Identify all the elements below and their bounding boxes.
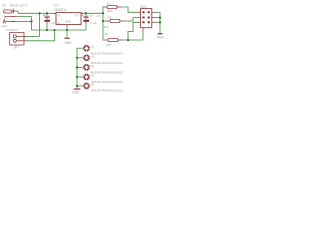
svg-text:R1: R1 <box>107 1 111 5</box>
svg-text:MOUNT-PAD-ROUND3.2: MOUNT-PAD-ROUND3.2 <box>91 51 124 55</box>
svg-text:SV1: SV1 <box>140 5 146 9</box>
svg-text:330: 330 <box>107 9 112 13</box>
svg-text:GND: GND <box>72 91 80 95</box>
svg-text:GND: GND <box>157 36 165 40</box>
svg-text:9V-BATT: 9V-BATT <box>6 28 18 32</box>
svg-text:GND: GND <box>65 41 73 45</box>
svg-text:100uF: 100uF <box>52 21 61 25</box>
svg-text:330: 330 <box>106 43 111 47</box>
svg-text:X1: X1 <box>2 4 6 8</box>
svg-text:MOUNT-PAD-ROUND3.2: MOUNT-PAD-ROUND3.2 <box>91 61 124 65</box>
svg-text:7805TV: 7805TV <box>54 8 67 12</box>
svg-text:C2: C2 <box>90 14 94 18</box>
svg-text:R3: R3 <box>105 32 109 36</box>
svg-text:IC1: IC1 <box>54 3 60 7</box>
svg-text:VI: VI <box>58 14 61 18</box>
svg-text:MOUNT-PAD-ROUND3.2: MOUNT-PAD-ROUND3.2 <box>91 71 124 75</box>
svg-text:JP1: JP1 <box>14 45 20 49</box>
svg-text:MOUNT-PAD-ROUND3.2: MOUNT-PAD-ROUND3.2 <box>91 88 124 92</box>
svg-text:GND: GND <box>65 19 71 23</box>
svg-text:R2: R2 <box>108 15 112 19</box>
svg-text:check pin 2: check pin 2 <box>10 4 28 8</box>
svg-text:0.1uF: 0.1uF <box>90 21 97 25</box>
svg-text:VO: VO <box>75 14 80 18</box>
svg-text:+5V: +5V <box>96 14 101 18</box>
svg-text:MOUNT-PAD-ROUND3.2: MOUNT-PAD-ROUND3.2 <box>91 80 124 84</box>
svg-text:330: 330 <box>104 25 109 29</box>
svg-text:H1: H1 <box>91 45 95 49</box>
